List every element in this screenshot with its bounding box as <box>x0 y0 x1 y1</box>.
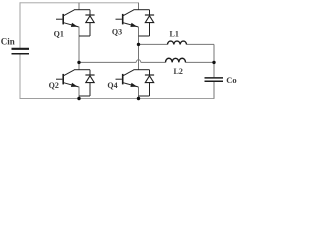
svg-text:Q1: Q1 <box>54 29 64 38</box>
svg-text:L1: L1 <box>170 30 179 39</box>
svg-text:Q4: Q4 <box>107 81 117 90</box>
svg-text:Co: Co <box>226 75 236 85</box>
svg-text:L2: L2 <box>174 67 183 76</box>
svg-text:Q2: Q2 <box>49 81 59 90</box>
svg-text:Q3: Q3 <box>112 27 122 36</box>
svg-text:Cin: Cin <box>1 36 15 46</box>
